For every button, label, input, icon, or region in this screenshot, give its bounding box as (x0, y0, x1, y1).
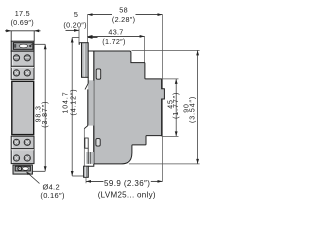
body top edge over recess (88, 50, 94, 52)
lower terminal divider (11, 148, 34, 150)
43.7 dim line (88, 35, 145, 37)
bottom cap (13, 165, 32, 174)
45 top connector (162, 78, 179, 80)
17.5 dim extension line right (33, 31, 35, 42)
mounting foot (84, 166, 89, 177)
screw 1a (13, 55, 19, 61)
104.7 bottom connector (72, 175, 83, 177)
bezel top step (79, 43, 81, 45)
90 bottom connector (129, 163, 200, 165)
terminal divider (11, 65, 34, 67)
17.5 dim extension line left (10, 31, 12, 42)
5 dim arrow left (66, 29, 80, 31)
43.7 extension (144, 36, 146, 63)
90 dim line (197, 50, 199, 163)
svg-text:(3.87″): (3.87″) (42, 101, 49, 128)
sealing oval bottom (23, 167, 29, 170)
label body (12, 81, 34, 134)
screw 3b (23, 138, 32, 147)
svg-text:59.9 (2.36″): 59.9 (2.36″) (104, 179, 150, 188)
90 top connector (132, 49, 200, 51)
lower terminal block (11, 136, 34, 163)
svg-text:(3.54″): (3.54″) (190, 96, 197, 123)
45 dim line (175, 79, 177, 136)
svg-text:(0.69″): (0.69″) (10, 18, 33, 27)
hole leader line (27, 172, 40, 183)
body face line lower recess (93, 126, 95, 164)
screw 3a (12, 138, 21, 147)
svg-text:104.7: 104.7 (63, 91, 70, 113)
hole center dot (19, 168, 20, 169)
screw 4a (12, 154, 21, 163)
mounting hole 4.2 (18, 167, 22, 171)
5 dim arrow right (88, 37, 98, 39)
svg-text:(0.16″): (0.16″) (40, 191, 65, 200)
lower recess left edge (83, 129, 85, 167)
svg-text:(4.12″): (4.12″) (70, 88, 77, 115)
svg-text:58: 58 (119, 5, 128, 14)
5 dim extension (78, 28, 80, 44)
side body main (94, 51, 165, 164)
svg-text:43.7: 43.7 (108, 27, 123, 36)
screw 4b (23, 154, 32, 163)
small circle top (29, 45, 31, 47)
45 bottom connector (162, 135, 179, 137)
top cap (11, 41, 34, 51)
bezel inner light line (83, 43, 85, 77)
58 extension line left (87, 15, 89, 43)
98.3 dim line (44, 44, 46, 171)
svg-text:(LVM25... only): (LVM25... only) (98, 191, 156, 200)
top cap inner cover (13, 43, 33, 50)
bottom slot (96, 139, 100, 147)
bottom cap inner cover (15, 166, 30, 171)
59.9 extension left (85, 178, 87, 184)
lower recess box (85, 138, 88, 148)
svg-text:(0.20″): (0.20″) (63, 20, 86, 29)
upper terminal block (11, 51, 34, 79)
label face line (87, 89, 89, 125)
front bezel (82, 43, 89, 78)
17.5 dim line (5, 30, 41, 32)
screw 1b (24, 55, 30, 61)
svg-text:(2.28″): (2.28″) (112, 15, 135, 24)
chamfer bottom (84, 126, 88, 129)
body face line top recess (93, 51, 95, 81)
104.7 top connector (72, 37, 79, 39)
top slot (96, 69, 101, 79)
svg-text:(1.72″): (1.72″) (102, 37, 125, 46)
svg-text:5: 5 (74, 10, 78, 19)
cover end clip left (14, 44, 16, 48)
98.3 top connector (31, 43, 45, 45)
104.7 dim line (71, 38, 73, 177)
59.9 dim line (86, 180, 104, 182)
lower cover gray (86, 152, 94, 164)
mid front gray band (88, 80, 94, 125)
screw 2a (12, 69, 21, 78)
foot inner line (85, 167, 87, 177)
58 dim line (88, 14, 113, 16)
bezel lower edge (87, 77, 89, 83)
svg-text:17.5: 17.5 (15, 9, 30, 18)
bottom cap white strip (14, 172, 31, 173)
top front white recess (89, 52, 94, 80)
58 extension line right (also 59.9) (162, 15, 164, 182)
svg-text:(1.77″): (1.77″) (173, 92, 180, 119)
bottom edge step (88, 164, 94, 166)
chamfer top (85, 83, 88, 89)
screw 2b (23, 69, 32, 78)
98.3 bottom connector (32, 170, 45, 172)
sealing oval top (19, 44, 28, 48)
